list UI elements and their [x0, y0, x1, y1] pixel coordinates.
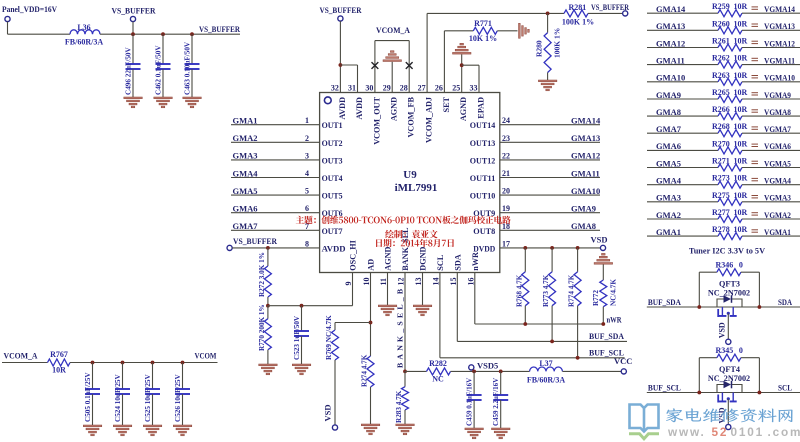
svg-text:GMA11: GMA11 [656, 55, 685, 65]
svg-text:AGND: AGND [384, 247, 393, 271]
svg-text:VGMA5: VGMA5 [764, 158, 791, 168]
svg-text:AVDD: AVDD [338, 97, 347, 120]
svg-text:C524 10uF/25V: C524 10uF/25V [114, 373, 122, 422]
svg-text:OSC_HI: OSC_HI [349, 240, 358, 270]
svg-text:OUT8: OUT8 [473, 226, 495, 236]
svg-text:U9: U9 [403, 169, 417, 181]
svg-text:AGND: AGND [459, 97, 468, 121]
svg-text:GMA5: GMA5 [656, 158, 681, 168]
svg-text:2: 2 [305, 134, 309, 143]
svg-text:NC/4.7K: NC/4.7K [610, 279, 618, 306]
svg-text:13: 13 [414, 278, 423, 286]
svg-text:GMA10: GMA10 [571, 186, 600, 196]
svg-text:25: 25 [452, 84, 460, 93]
svg-text:QFT3: QFT3 [719, 280, 740, 289]
svg-text:3: 3 [305, 151, 309, 160]
svg-text:32: 32 [331, 84, 339, 93]
svg-text:Panel_VDD=16V: Panel_VDD=16V [2, 4, 58, 14]
svg-text:C459 2.2uF/16V: C459 2.2uF/16V [492, 378, 500, 426]
svg-text:GMA14: GMA14 [571, 116, 601, 126]
svg-text:GMA4: GMA4 [656, 176, 682, 186]
svg-text:10R: 10R [734, 71, 748, 80]
svg-text:FB/60R/3A: FB/60R/3A [65, 38, 103, 47]
svg-text:10R: 10R [734, 139, 748, 148]
svg-text:GMA6: GMA6 [233, 204, 258, 214]
svg-text:R274 4.7K: R274 4.7K [361, 354, 369, 387]
svg-text:Tuner I2C 3.3V to 5V: Tuner I2C 3.3V to 5V [689, 247, 765, 256]
svg-text:R282: R282 [429, 359, 447, 368]
svg-text:NC: NC [432, 375, 444, 384]
svg-text:VCOM_OUT: VCOM_OUT [372, 96, 381, 144]
svg-text:R771: R771 [474, 19, 492, 28]
svg-text:NC_2N7002: NC_2N7002 [708, 374, 750, 383]
svg-text:GMA12: GMA12 [656, 38, 685, 48]
svg-text:SCL: SCL [778, 383, 792, 393]
svg-text:R767: R767 [50, 350, 68, 359]
svg-text:30: 30 [365, 84, 373, 93]
svg-text:R263: R263 [712, 71, 730, 80]
svg-text:OUT14: OUT14 [470, 120, 496, 130]
svg-text:GMA13: GMA13 [571, 133, 600, 143]
svg-text:SDA: SDA [778, 297, 793, 307]
svg-text:27: 27 [418, 84, 426, 93]
svg-text:R262: R262 [712, 54, 730, 63]
svg-text:VGMA1: VGMA1 [764, 227, 791, 237]
svg-text:NC_2N7002: NC_2N7002 [708, 289, 750, 298]
svg-text:12: 12 [397, 278, 406, 286]
svg-text:6: 6 [305, 204, 309, 213]
svg-text:R280: R280 [535, 40, 544, 57]
svg-text:OUT12: OUT12 [470, 155, 496, 165]
svg-text:R261: R261 [712, 37, 730, 46]
svg-text:GMA1: GMA1 [233, 116, 258, 126]
svg-text:20: 20 [502, 187, 510, 196]
svg-text:GMA8: GMA8 [571, 221, 596, 231]
svg-text:10R: 10R [734, 174, 748, 183]
svg-text:C523 1uF/50V: C523 1uF/50V [293, 315, 301, 360]
svg-text:EPAD: EPAD [476, 97, 485, 119]
svg-text:22: 22 [502, 151, 510, 160]
svg-text:GMA3: GMA3 [656, 193, 681, 203]
svg-text:21: 21 [502, 169, 510, 178]
svg-text:100K 1%: 100K 1% [562, 18, 594, 27]
svg-text:VS_BUFFER: VS_BUFFER [233, 236, 278, 246]
svg-text:15: 15 [449, 278, 458, 286]
svg-text:BUF_SDA: BUF_SDA [648, 297, 682, 307]
svg-text:VGMA6: VGMA6 [764, 141, 791, 151]
svg-text:R271: R271 [712, 157, 730, 166]
svg-text:GMA11: GMA11 [571, 168, 600, 178]
svg-text:33: 33 [470, 84, 478, 93]
svg-text:GMA7: GMA7 [233, 221, 259, 231]
svg-text:AD: AD [367, 259, 376, 271]
svg-text:R268: R268 [712, 122, 730, 131]
svg-text:VCOM_ADJ: VCOM_ADJ [425, 97, 434, 143]
svg-text:R266: R266 [712, 105, 730, 114]
svg-text:C463 0.10uF/50V: C463 0.10uF/50V [184, 41, 192, 95]
svg-text:VGMA11: VGMA11 [764, 55, 795, 65]
svg-text:OUT4: OUT4 [322, 173, 344, 183]
svg-text:10R: 10R [734, 208, 748, 217]
svg-text:GMA5: GMA5 [233, 186, 258, 196]
svg-text:L37: L37 [539, 359, 552, 368]
svg-text:www.: www. [667, 425, 706, 439]
svg-text:OUT10: OUT10 [470, 191, 496, 201]
svg-text:R772: R772 [592, 290, 600, 306]
svg-text:GMA13: GMA13 [656, 21, 685, 31]
svg-text:OUT3: OUT3 [322, 155, 343, 165]
svg-text:R768 4.7K: R768 4.7K [515, 274, 523, 307]
svg-text:VS_BUFFER: VS_BUFFER [112, 6, 157, 16]
svg-text:28: 28 [400, 84, 408, 93]
svg-text:SCL: SCL [436, 254, 445, 270]
svg-text:100K 1%: 100K 1% [553, 28, 562, 58]
svg-text:GMA8: GMA8 [656, 107, 681, 117]
svg-text:10R: 10R [734, 157, 748, 166]
svg-text:VGMA3: VGMA3 [764, 193, 791, 203]
svg-text:VGMA7: VGMA7 [764, 124, 792, 134]
svg-text:17: 17 [502, 239, 510, 248]
svg-text:29: 29 [383, 84, 391, 93]
svg-text:GMA14: GMA14 [656, 4, 686, 14]
svg-text:R283 4.7K: R283 4.7K [395, 390, 403, 423]
svg-text:VGMA10: VGMA10 [764, 73, 795, 83]
svg-text:10R: 10R [734, 88, 748, 97]
svg-text:AVDD: AVDD [322, 243, 346, 253]
svg-text:C459 0.1uF/16V: C459 0.1uF/16V [466, 378, 474, 426]
svg-text:R278: R278 [712, 225, 730, 234]
svg-text:FB/60R/3A: FB/60R/3A [527, 376, 565, 385]
svg-text:VGMA4: VGMA4 [764, 176, 792, 186]
svg-text:R273: R273 [712, 174, 730, 183]
svg-text:C462 0.1uF/50V: C462 0.1uF/50V [155, 45, 163, 95]
svg-text:R260: R260 [712, 19, 730, 28]
svg-text:16: 16 [466, 278, 475, 286]
svg-text:VS_BUFFER: VS_BUFFER [591, 2, 630, 12]
svg-text:GMA1: GMA1 [656, 227, 681, 237]
svg-text:52: 52 [712, 425, 729, 439]
svg-text:BUF_SCL: BUF_SCL [589, 347, 624, 357]
svg-text:OUT2: OUT2 [322, 138, 343, 148]
svg-text:31: 31 [348, 84, 356, 93]
svg-text:GMA10: GMA10 [656, 73, 685, 83]
svg-text:R774 4.7K: R774 4.7K [568, 274, 576, 307]
svg-text:R270: R270 [712, 139, 730, 148]
svg-text:OUT13: OUT13 [470, 138, 496, 148]
svg-text:10: 10 [362, 278, 371, 286]
svg-text:GMA9: GMA9 [656, 90, 681, 100]
svg-text:nWR: nWR [471, 252, 480, 271]
svg-text:BUF_SCL: BUF_SCL [648, 383, 681, 393]
svg-text:BANK_SEL_B: BANK_SEL_B [396, 286, 405, 368]
svg-text:10R: 10R [734, 54, 748, 63]
svg-text:AVDD: AVDD [355, 97, 364, 120]
svg-text:OUT5: OUT5 [322, 191, 343, 201]
svg-text:0101: 0101 [731, 425, 764, 439]
svg-text:OUT7: OUT7 [322, 226, 344, 236]
svg-text:GMA2: GMA2 [656, 210, 681, 220]
svg-text:VCOM_A: VCOM_A [4, 351, 39, 361]
svg-text:VGMA2: VGMA2 [764, 210, 791, 220]
svg-text:R272 3.0K 1%: R272 3.0K 1% [258, 252, 266, 297]
svg-text:VSD: VSD [323, 404, 333, 421]
svg-text:nWR: nWR [607, 315, 623, 325]
svg-text:14: 14 [432, 278, 441, 286]
svg-text:10R: 10R [734, 37, 748, 46]
svg-text:GMA12: GMA12 [571, 151, 600, 161]
svg-text:SET: SET [442, 96, 451, 112]
svg-text:R259: R259 [712, 2, 730, 11]
svg-text:VSD: VSD [591, 235, 608, 245]
svg-text:10R: 10R [52, 366, 66, 375]
svg-text:OUT11: OUT11 [470, 173, 496, 183]
svg-text:R281: R281 [569, 3, 587, 12]
svg-text:11: 11 [379, 278, 388, 286]
svg-text:VSD: VSD [717, 322, 726, 338]
svg-text:R277: R277 [712, 208, 730, 217]
svg-text:10R: 10R [734, 122, 748, 131]
svg-text:10R: 10R [734, 19, 748, 28]
svg-text:0: 0 [739, 346, 743, 355]
svg-text:10R: 10R [734, 225, 748, 234]
svg-text:0: 0 [739, 261, 743, 270]
svg-text:5: 5 [305, 187, 309, 196]
svg-text:10R: 10R [734, 2, 748, 11]
svg-text:VCOM: VCOM [195, 351, 217, 361]
svg-text:VGMA13: VGMA13 [764, 21, 795, 31]
svg-text:GMA4: GMA4 [233, 168, 259, 178]
svg-text:VGMA9: VGMA9 [764, 90, 791, 100]
svg-text:C496 22uF/50V: C496 22uF/50V [125, 46, 133, 95]
svg-text:R265: R265 [712, 88, 730, 97]
svg-text:QFT4: QFT4 [719, 365, 740, 374]
svg-text:R769 NC/4.7K: R769 NC/4.7K [325, 315, 333, 360]
svg-text:DVDD: DVDD [473, 243, 495, 253]
svg-text:GMA6: GMA6 [656, 141, 681, 151]
svg-text:R770 200K 1%: R770 200K 1% [258, 304, 266, 351]
svg-text:OUT1: OUT1 [322, 120, 343, 130]
svg-text:10K 1%: 10K 1% [469, 34, 497, 43]
svg-text:VCOM_A: VCOM_A [376, 25, 411, 35]
svg-text:9: 9 [344, 282, 353, 286]
svg-text:GMA2: GMA2 [233, 133, 258, 143]
svg-text:VS_BUFFER: VS_BUFFER [199, 24, 241, 34]
svg-text:8: 8 [305, 239, 309, 248]
svg-text:AGND: AGND [390, 97, 399, 121]
svg-text:GMA3: GMA3 [233, 151, 258, 161]
svg-text:VS_BUFFER: VS_BUFFER [320, 5, 363, 15]
svg-text:VGMA12: VGMA12 [764, 38, 795, 48]
svg-text:DGND: DGND [419, 247, 428, 271]
svg-text:R345: R345 [716, 346, 734, 355]
svg-text:VSD5: VSD5 [477, 361, 498, 371]
svg-text:GMA7: GMA7 [656, 124, 682, 134]
svg-text:10R: 10R [734, 105, 748, 114]
svg-text:SDA: SDA [454, 254, 463, 270]
svg-text:VGMA8: VGMA8 [764, 107, 791, 117]
svg-text:C505 0.1uF/25V: C505 0.1uF/25V [84, 372, 92, 422]
svg-text:24: 24 [502, 116, 510, 125]
svg-text:iML7991: iML7991 [395, 182, 438, 194]
svg-text:VCOM_FB: VCOM_FB [407, 96, 416, 137]
svg-text:GMA9: GMA9 [571, 204, 596, 214]
svg-text:26: 26 [435, 84, 443, 93]
svg-text:1: 1 [305, 116, 309, 125]
svg-text:23: 23 [502, 134, 510, 143]
svg-text:BUF_SDA: BUF_SDA [589, 331, 625, 341]
svg-text:R346: R346 [716, 261, 734, 270]
svg-text:19: 19 [502, 204, 510, 213]
svg-text:R773 4.7K: R773 4.7K [542, 274, 550, 307]
svg-text:10R: 10R [734, 191, 748, 200]
svg-text:R275: R275 [712, 191, 730, 200]
svg-text:C525 10uF/25V: C525 10uF/25V [144, 373, 152, 422]
svg-text:C526 10uF/25V: C526 10uF/25V [174, 373, 182, 422]
svg-text:L36: L36 [77, 23, 90, 32]
svg-text:VGMA14: VGMA14 [764, 4, 796, 14]
svg-text:4: 4 [305, 169, 309, 178]
svg-text:.com: .com [768, 425, 800, 439]
svg-text:BANK_SEL: BANK_SEL [401, 227, 410, 271]
